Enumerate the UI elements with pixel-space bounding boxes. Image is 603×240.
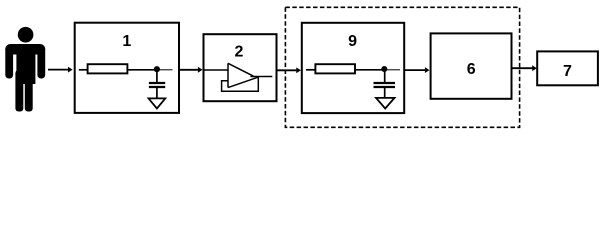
svg-text:6: 6	[467, 61, 476, 78]
svg-text:7: 7	[563, 63, 572, 80]
svg-text:1: 1	[122, 33, 131, 50]
svg-text:9: 9	[348, 33, 357, 50]
svg-text:2: 2	[235, 43, 244, 60]
